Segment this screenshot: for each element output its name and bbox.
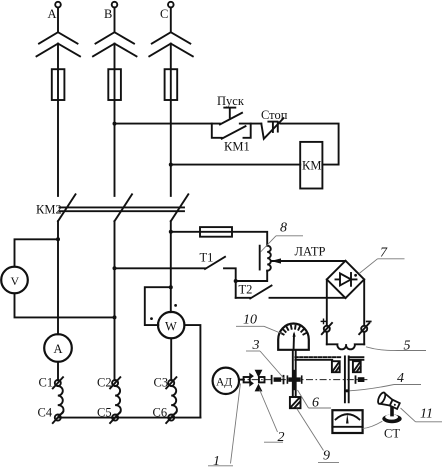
fuse FU3 — [165, 69, 178, 100]
needle gauge 10 — [293, 335, 295, 349]
wire bridge plus — [326, 279, 328, 344]
svg-text:10: 10 — [243, 313, 257, 328]
svg-text:С: С — [160, 7, 168, 21]
pole block right — [353, 361, 361, 372]
linkage KM2 — [60, 206, 185, 208]
contact KM1 — [222, 126, 246, 139]
wire phase C below KM2 — [170, 221, 172, 312]
STATOR — [38, 375, 201, 423]
node fuse tap phase C — [169, 230, 173, 234]
wire Стоп to right — [280, 124, 338, 165]
svg-text:W: W — [165, 320, 177, 334]
CONTROL — [113, 94, 339, 189]
terminal С1 — [53, 377, 63, 388]
wire bridge minus — [363, 279, 365, 344]
svg-text:КМ2: КМ2 — [36, 203, 62, 217]
stem coupling — [287, 370, 303, 390]
svg-text:2: 2 — [278, 430, 285, 445]
coil KM — [300, 142, 322, 189]
wire T2 to bridge — [270, 297, 346, 299]
svg-text:КМ: КМ — [302, 159, 321, 173]
label plus — [321, 319, 327, 325]
svg-text:С2: С2 — [97, 375, 112, 389]
terminal A — [55, 2, 61, 8]
contact KM2 phase C — [171, 194, 189, 221]
wire parallel branch — [212, 124, 222, 138]
node tap phase B control — [113, 122, 117, 126]
damper block 6 — [290, 397, 301, 408]
node V join B — [113, 315, 117, 319]
cable to CT — [363, 421, 383, 428]
wire phase B top — [114, 7, 116, 32]
wiper arrow LATR — [272, 260, 346, 262]
svg-text:Т2: Т2 — [239, 283, 253, 297]
wire T1 out — [224, 268, 236, 298]
svg-text:С1: С1 — [39, 375, 54, 389]
wire W voltage coil — [145, 287, 171, 325]
fuse FU1 — [52, 69, 65, 100]
contact KM2 phase B — [115, 194, 133, 221]
contact T1 — [205, 257, 225, 269]
wire phase A below KM2 — [57, 221, 59, 334]
switch QS phase C — [152, 32, 191, 43]
wire fuse to LATR — [171, 232, 267, 246]
BRIDGE — [321, 246, 405, 345]
wire T1 — [115, 267, 206, 269]
terminal C — [168, 2, 174, 8]
pendulum shaft coupling — [355, 375, 365, 383]
wire phase A top — [57, 7, 59, 32]
PHASES — [37, 2, 193, 196]
switch QS phase A — [39, 32, 78, 43]
wire A to C1 — [57, 362, 59, 380]
svg-text:8: 8 — [280, 221, 287, 236]
winding LATR T — [267, 246, 271, 271]
terminal minus — [359, 323, 369, 334]
wire after Пуск — [240, 123, 261, 125]
tachometer gauge 10 — [278, 324, 309, 350]
pole block left — [332, 361, 340, 372]
svg-text:В: В — [104, 7, 112, 21]
svg-text:А: А — [48, 7, 57, 21]
contact KM2 phase A — [58, 194, 76, 221]
svg-text:7: 7 — [380, 246, 388, 261]
terminal plus — [322, 323, 332, 334]
coupling halves — [249, 370, 262, 392]
wire KM1 right — [244, 124, 251, 138]
voltmeter PV — [1, 267, 28, 294]
torque coupling — [271, 375, 285, 384]
label minus — [366, 321, 372, 323]
coil brake magnet — [327, 344, 364, 349]
contact T2 — [250, 286, 271, 299]
BRAKE — [295, 339, 426, 403]
diode symbol — [336, 273, 357, 286]
svg-text:Т1: Т1 — [200, 251, 214, 265]
node pendulum pivot — [345, 389, 348, 392]
wire V top — [15, 239, 59, 266]
polarity dot bridge — [354, 274, 357, 277]
wire phase C top — [170, 7, 172, 32]
scale device — [332, 410, 362, 433]
wire W to C3 — [170, 338, 172, 380]
wire phase A to KM2 — [57, 44, 59, 196]
wire V bottom — [15, 293, 115, 317]
svg-text:СТ: СТ — [384, 427, 400, 441]
svg-text:Стоп: Стоп — [261, 108, 288, 122]
terminal С2 — [110, 377, 120, 388]
winding C1-C4 — [58, 386, 64, 415]
node T1 tap phase B — [113, 266, 117, 270]
svg-text:А: А — [54, 342, 63, 356]
stroboscope CT — [377, 392, 402, 424]
rectifier VD bridge — [327, 261, 364, 298]
frame hatched bar — [295, 359, 332, 361]
winding C2-C5 — [115, 386, 121, 415]
wire phase B to KM2 — [114, 44, 116, 196]
svg-text:С3: С3 — [154, 375, 169, 389]
shaft stub — [239, 379, 244, 381]
wire control top — [115, 123, 220, 125]
node T2 branch — [234, 279, 238, 283]
svg-text:С4: С4 — [38, 406, 53, 420]
terminal С4 — [53, 412, 63, 423]
svg-text:V: V — [11, 274, 20, 288]
wire W right to neutral — [184, 325, 200, 418]
svg-text:11: 11 — [420, 407, 433, 422]
switch QS phase B — [96, 32, 135, 43]
wire neutral — [58, 417, 201, 419]
wire phase C to KM2 — [170, 44, 172, 196]
core LATR — [259, 246, 261, 270]
motor АД — [213, 368, 239, 394]
svg-text:4: 4 — [397, 371, 404, 386]
gauge stem — [292, 351, 294, 397]
LATR — [113, 221, 346, 299]
MECH — [208, 313, 442, 468]
terminal С6 — [166, 412, 176, 423]
svg-text:КМ1: КМ1 — [224, 140, 250, 154]
polarity dot W top — [174, 304, 177, 307]
armature pendulum — [344, 356, 346, 402]
fuse FU4 — [200, 227, 232, 237]
button SB2 Стоп — [261, 118, 283, 139]
svg-text:Пуск: Пуск — [217, 94, 245, 108]
polarity dot W left — [150, 317, 153, 320]
terminal С5 — [110, 412, 120, 423]
button SB1 Пуск — [220, 113, 242, 125]
node tap phase C control — [169, 163, 173, 167]
fuse FU2 — [108, 69, 121, 100]
wattmeter PW — [158, 312, 184, 338]
wire T2 left — [236, 297, 251, 299]
svg-text:ЛАТР: ЛАТР — [295, 245, 326, 259]
wire control return — [171, 164, 300, 166]
node V tap — [56, 237, 60, 241]
svg-text:АД: АД — [216, 377, 232, 389]
svg-text:5: 5 — [404, 339, 411, 354]
svg-text:9: 9 — [323, 449, 330, 464]
winding C3-C6 — [171, 386, 177, 415]
wire LATR bottom — [236, 271, 268, 281]
terminal С3 — [166, 377, 176, 388]
METERS — [1, 237, 200, 417]
wire phase B below KM2 — [114, 221, 116, 380]
node W tap — [169, 285, 173, 289]
KM2 — [36, 194, 188, 380]
shaft centerline — [238, 379, 368, 381]
terminal B — [112, 2, 118, 8]
ammeter PA — [44, 334, 72, 362]
